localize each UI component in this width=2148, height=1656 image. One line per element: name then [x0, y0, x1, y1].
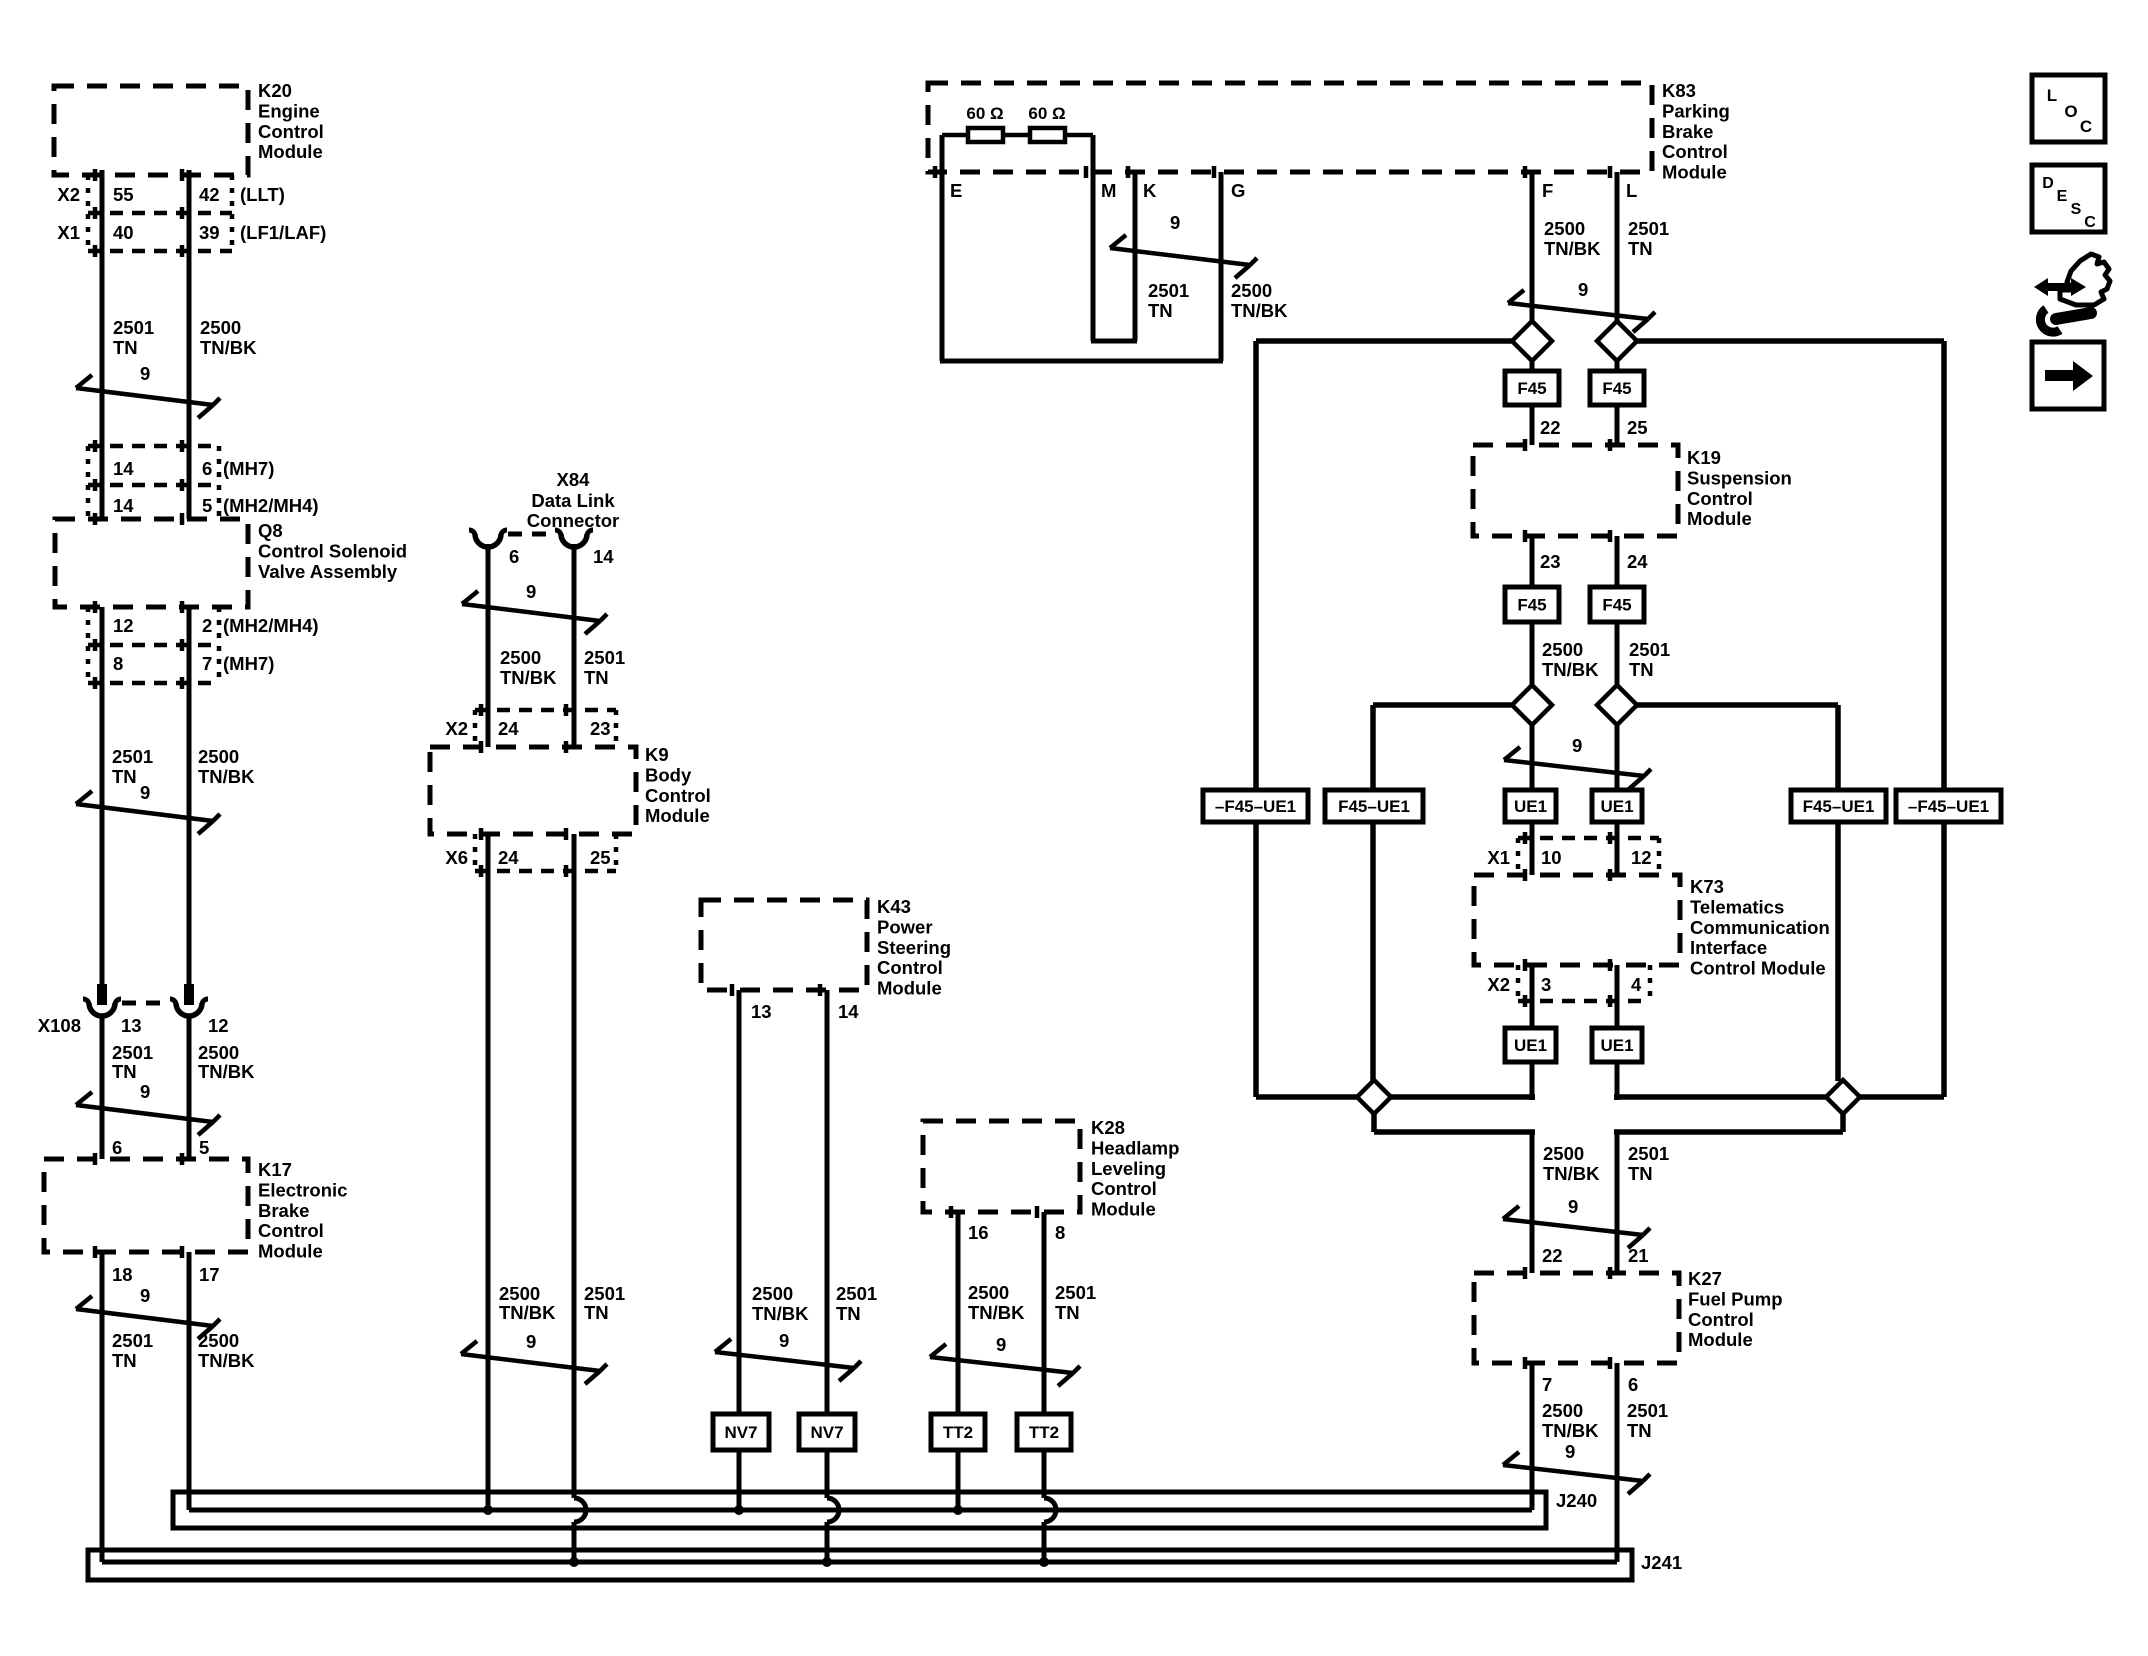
wire 2500 TN/BK from K28 pin 16 to TT2	[956, 1212, 961, 1414]
svg-text:S: S	[2071, 201, 2082, 218]
svg-text:6: 6	[1628, 1374, 1638, 1395]
splice diamond (2501 lower)	[1614, 1094, 1827, 1100]
svg-text:K83: K83	[1662, 80, 1696, 101]
svg-text:X6: X6	[445, 847, 468, 868]
svg-text:UE1: UE1	[1514, 797, 1547, 816]
svg-text:6: 6	[112, 1137, 122, 1158]
bus J241 conductor	[102, 1560, 1617, 1565]
svg-text:Module: Module	[1688, 1329, 1753, 1350]
svg-text:Module: Module	[1662, 162, 1727, 183]
svg-text:TN: TN	[1627, 1420, 1652, 1441]
connector row X2 pins 3 / 4 (K73)	[1518, 999, 1650, 1004]
wire 2501 TN from NV7 to J241 (hops J240)	[825, 1450, 830, 1498]
svg-text:2500: 2500	[1543, 1143, 1584, 1164]
module Q8 Control Solenoid Valve Assembly	[55, 519, 248, 607]
svg-text:TN: TN	[1628, 1163, 1653, 1184]
splice diamond (2501 upper)	[1597, 321, 1637, 361]
option box NV7	[799, 1414, 855, 1450]
wire F45 to K19 pin 25	[1615, 405, 1620, 445]
svg-text:K: K	[1143, 180, 1157, 201]
option box -F45-UE1 (far left)	[1203, 790, 1308, 822]
inline connector X108 pins 13 / 12	[97, 984, 107, 1005]
svg-text:C: C	[2084, 214, 2096, 231]
junction dot X84 wire	[569, 1557, 579, 1567]
svg-text:F45: F45	[1517, 596, 1546, 615]
svg-text:Module: Module	[1091, 1199, 1156, 1220]
icon next arrow	[2032, 342, 2104, 409]
connector row pins 12 / 2 (MH2/MH4)	[88, 643, 219, 648]
option box UE1 (lower left)	[1505, 1028, 1556, 1062]
svg-text:Control: Control	[1688, 1309, 1754, 1330]
svg-text:23: 23	[590, 718, 611, 739]
module K43 Power Steering Control Module	[701, 900, 867, 990]
wire 2501 TN from K20 pin 55 to Q8	[100, 170, 105, 519]
svg-text:Body: Body	[645, 764, 692, 785]
junction dot K43 wire	[822, 1557, 832, 1567]
svg-text:2500: 2500	[1542, 1400, 1583, 1421]
svg-text:24: 24	[498, 847, 519, 868]
svg-text:UE1: UE1	[1600, 797, 1633, 816]
svg-text:K43: K43	[877, 896, 911, 917]
pin terminal ticks	[93, 169, 98, 181]
fuse box F45 (left lower)	[1505, 587, 1559, 622]
svg-text:Control Solenoid: Control Solenoid	[258, 540, 407, 561]
connector row X2 pins 55 / 42 (LLT)	[88, 211, 232, 216]
svg-text:2501: 2501	[1055, 1282, 1096, 1303]
svg-text:K28: K28	[1091, 1117, 1125, 1138]
svg-text:14: 14	[113, 495, 134, 516]
svg-text:3: 3	[1541, 974, 1551, 995]
svg-text:Power: Power	[877, 916, 933, 937]
svg-text:–F45–UE1: –F45–UE1	[1908, 797, 1989, 816]
wire F45 to K19 pin 22	[1530, 405, 1535, 445]
svg-text:Module: Module	[645, 805, 710, 826]
svg-text:12: 12	[113, 615, 134, 636]
svg-text:12: 12	[1631, 847, 1652, 868]
svg-text:Leveling: Leveling	[1091, 1158, 1166, 1179]
svg-text:2500: 2500	[752, 1283, 793, 1304]
wire resistor links	[942, 133, 968, 138]
wire -F45-UE1 right vertical	[1941, 341, 1947, 1097]
svg-text:42: 42	[199, 184, 220, 205]
splice diamond (2500 middle)	[1512, 685, 1552, 725]
wire F45-UE1 left vertical	[1370, 705, 1376, 1081]
svg-text:2500: 2500	[200, 317, 241, 338]
svg-text:17: 17	[199, 1264, 220, 1285]
svg-text:F: F	[1542, 180, 1553, 201]
svg-text:16: 16	[968, 1222, 989, 1243]
connector row X2 pins 24 / 23 (K9)	[475, 708, 616, 713]
svg-text:F45–UE1: F45–UE1	[1803, 797, 1875, 816]
svg-text:Module: Module	[877, 978, 942, 999]
wire -F45-UE1 left vertical	[1253, 341, 1259, 1097]
svg-text:2500: 2500	[1231, 280, 1272, 301]
svg-text:X1: X1	[1487, 847, 1510, 868]
wire UE1 to K73 X1-12	[1615, 822, 1620, 875]
svg-text:Control: Control	[258, 1220, 324, 1241]
svg-text:Electronic: Electronic	[258, 1179, 347, 1200]
svg-text:24: 24	[1627, 551, 1648, 572]
svg-text:TN/BK: TN/BK	[198, 1350, 255, 1371]
icon hand with double arrow and wrench	[2060, 254, 2110, 305]
svg-text:13: 13	[751, 1001, 772, 1022]
svg-text:TN/BK: TN/BK	[1231, 300, 1288, 321]
svg-text:40: 40	[113, 222, 134, 243]
svg-text:25: 25	[1627, 417, 1648, 438]
wire K19 pin 23 to F45	[1530, 536, 1535, 587]
svg-text:9: 9	[526, 581, 536, 602]
svg-text:TN: TN	[1055, 1302, 1080, 1323]
svg-text:Data Link: Data Link	[531, 490, 615, 511]
svg-text:9: 9	[1578, 279, 1588, 300]
svg-text:F45–UE1: F45–UE1	[1338, 797, 1410, 816]
junction dot K28 wire	[953, 1505, 963, 1515]
fuse box F45 (right upper)	[1615, 361, 1620, 371]
icon LOC	[2032, 75, 2105, 142]
svg-text:25: 25	[590, 847, 611, 868]
svg-text:TN/BK: TN/BK	[198, 766, 255, 787]
svg-text:E: E	[950, 180, 962, 201]
connector row pins 14 / 6 (MH7)	[88, 444, 219, 449]
svg-text:2500: 2500	[968, 1282, 1009, 1303]
svg-text:4: 4	[1631, 974, 1642, 995]
svg-text:9: 9	[1572, 735, 1582, 756]
svg-text:Brake: Brake	[1662, 121, 1713, 142]
option box UE1 (right)	[1592, 790, 1642, 822]
wire 2501 TN to K27 pin 21	[1615, 1132, 1620, 1273]
svg-text:9: 9	[140, 1285, 150, 1306]
svg-text:9: 9	[140, 782, 150, 803]
svg-text:9: 9	[779, 1330, 789, 1351]
wire 2501 TN from X108 to K17 pin 6	[100, 1016, 105, 1159]
svg-text:X108: X108	[38, 1015, 81, 1036]
wire splice to UE1 (right)	[1615, 725, 1620, 790]
svg-text:TN/BK: TN/BK	[200, 337, 257, 358]
svg-text:9: 9	[996, 1334, 1006, 1355]
wire lower horizontal joins (left)	[1256, 1094, 1360, 1100]
svg-text:TN/BK: TN/BK	[968, 1302, 1025, 1323]
svg-text:2500: 2500	[1542, 639, 1583, 660]
wire pin M loop (M down, across, up to K)	[1091, 135, 1096, 341]
wire 2501 TN from Q8 to X108	[100, 607, 105, 986]
svg-text:J240: J240	[1556, 1490, 1597, 1511]
svg-text:X2: X2	[1487, 974, 1510, 995]
svg-text:Interface: Interface	[1690, 937, 1767, 958]
module K27 Fuel Pump Control Module	[1474, 1273, 1679, 1363]
svg-text:TN: TN	[113, 337, 138, 358]
bus J240 outline	[173, 1492, 1546, 1528]
svg-text:22: 22	[1540, 417, 1561, 438]
svg-text:2501: 2501	[112, 746, 153, 767]
svg-text:UE1: UE1	[1514, 1036, 1547, 1055]
option box TT2	[931, 1414, 985, 1450]
svg-text:2501: 2501	[584, 647, 625, 668]
svg-text:X2: X2	[445, 718, 468, 739]
svg-text:–F45–UE1: –F45–UE1	[1215, 797, 1296, 816]
wire F45 to splice	[1530, 622, 1535, 685]
svg-text:Fuel Pump: Fuel Pump	[1688, 1288, 1783, 1309]
svg-text:8: 8	[1055, 1222, 1065, 1243]
wire 2500 TN/BK from X108 to K17 pin 5	[187, 1016, 192, 1159]
svg-text:TT2: TT2	[1029, 1423, 1059, 1442]
svg-text:Control: Control	[877, 957, 943, 978]
svg-text:9: 9	[1568, 1196, 1578, 1217]
svg-text:5: 5	[199, 1137, 209, 1158]
wire 2500 TN/BK from K9 X6-24 to J240	[486, 710, 491, 747]
wire middle horizontal right to F45-UE1 branch	[1637, 702, 1838, 708]
svg-text:(MH7): (MH7)	[223, 653, 274, 674]
svg-text:J241: J241	[1641, 1552, 1682, 1573]
svg-text:TN: TN	[836, 1303, 861, 1324]
svg-text:8: 8	[113, 653, 123, 674]
wire F45-UE1 right vertical	[1835, 705, 1841, 1081]
fuse box F45 (right lower)	[1590, 587, 1644, 622]
wire K19 pin 24 to F45	[1615, 536, 1620, 587]
svg-text:60 Ω: 60 Ω	[1028, 104, 1065, 123]
svg-text:D: D	[2042, 175, 2054, 192]
svg-text:6: 6	[202, 458, 212, 479]
svg-text:F45: F45	[1517, 379, 1546, 398]
module K83 Parking Brake Control Module	[928, 83, 1652, 172]
svg-text:Suspension: Suspension	[1687, 467, 1792, 488]
svg-text:5: 5	[202, 495, 212, 516]
wire 2501 TN from K9 X6-25 to J241 (hops J240)	[572, 710, 577, 747]
svg-text:Telematics: Telematics	[1690, 896, 1784, 917]
svg-text:2500: 2500	[198, 746, 239, 767]
svg-text:2501: 2501	[1629, 639, 1670, 660]
svg-text:39: 39	[199, 222, 220, 243]
wire 2500 TN/BK from Q8 to X108	[187, 607, 192, 986]
svg-text:TN: TN	[584, 667, 609, 688]
svg-text:9: 9	[526, 1331, 536, 1352]
svg-text:2: 2	[202, 615, 212, 636]
svg-text:7: 7	[202, 653, 212, 674]
wire bus upper horizontal right to -F45-UE1 branch	[1637, 338, 1944, 344]
option box -F45-UE1 (far right)	[1896, 790, 2001, 822]
svg-text:Module: Module	[258, 1241, 323, 1262]
svg-text:2501: 2501	[1148, 280, 1189, 301]
svg-text:L: L	[1626, 180, 1637, 201]
splice diamond (2501 middle)	[1597, 685, 1637, 725]
svg-text:K73: K73	[1690, 876, 1724, 897]
svg-text:2501: 2501	[113, 317, 154, 338]
svg-text:K9: K9	[645, 744, 669, 765]
svg-text:E: E	[2057, 188, 2068, 205]
module K17 Electronic Brake Control Module	[44, 1159, 248, 1252]
svg-text:14: 14	[113, 458, 134, 479]
svg-text:X84: X84	[557, 469, 591, 490]
wire UE1 to splice (right)	[1615, 1062, 1620, 1100]
svg-text:2500: 2500	[500, 647, 541, 668]
svg-text:9: 9	[140, 363, 150, 384]
module K20 Engine Control Module	[54, 86, 248, 175]
svg-text:TN/BK: TN/BK	[499, 1302, 556, 1323]
svg-text:2500: 2500	[499, 1283, 540, 1304]
svg-text:2501: 2501	[1628, 218, 1669, 239]
junction dot K43 wire	[734, 1505, 744, 1515]
connector row X6 pins 24 / 25 (K9)	[475, 869, 616, 874]
wire bus upper horizontal left to -F45-UE1 branch	[1256, 338, 1512, 344]
svg-text:55: 55	[113, 184, 134, 205]
wire 2500 TN/BK from NV7 to J240	[737, 1450, 742, 1510]
svg-text:F45: F45	[1602, 596, 1631, 615]
bus J241 outline	[88, 1550, 1632, 1580]
wire 2501 TN K27 pin 6 to J241	[1615, 1363, 1620, 1562]
icon DESC	[2032, 165, 2105, 232]
wire K73 X2-4 to UE1	[1615, 965, 1620, 1028]
module K73 Telematics Communication Interface Control Module	[1474, 875, 1680, 965]
svg-text:2501: 2501	[112, 1330, 153, 1351]
connector row pins 8 / 7 (MH7)	[88, 681, 219, 686]
wire 2501 TN from K83 pin L	[1615, 172, 1620, 321]
svg-text:K27: K27	[1688, 1268, 1722, 1289]
svg-text:TN/BK: TN/BK	[1544, 238, 1601, 259]
svg-text:Control: Control	[1687, 488, 1753, 509]
svg-text:TN: TN	[1148, 300, 1173, 321]
svg-text:Control Module: Control Module	[1690, 958, 1826, 979]
svg-text:TT2: TT2	[943, 1423, 973, 1442]
wire 2500 TN/BK K27 pin 7 to J240	[1530, 1363, 1535, 1510]
svg-text:Control: Control	[645, 785, 711, 806]
wire 2501 TN from TT2 to J241 (hops J240)	[1042, 1450, 1047, 1498]
svg-text:9: 9	[1565, 1441, 1575, 1462]
wire UE1 to splice (left)	[1530, 1062, 1535, 1100]
wire 2501 TN from K28 pin 8 to TT2	[1042, 1212, 1047, 1414]
svg-text:2501: 2501	[1627, 1400, 1668, 1421]
svg-text:K17: K17	[258, 1159, 292, 1180]
wire 2501 TN from K17 pin 18 to J241	[100, 1252, 105, 1562]
svg-text:2500: 2500	[1544, 218, 1585, 239]
wire 2501 TN from K43 pin 14 to NV7	[825, 990, 830, 1414]
svg-text:(LLT): (LLT)	[240, 184, 285, 205]
svg-text:Valve Assembly: Valve Assembly	[258, 561, 398, 582]
wire 2500 TN/BK from X84 pin 6 to K9	[486, 544, 491, 710]
svg-text:2501: 2501	[1628, 1143, 1669, 1164]
svg-text:(LF1/LAF): (LF1/LAF)	[240, 222, 326, 243]
svg-text:Communication: Communication	[1690, 917, 1830, 938]
svg-text:Control: Control	[258, 121, 324, 142]
svg-text:TN/BK: TN/BK	[752, 1303, 809, 1324]
svg-text:2501: 2501	[836, 1283, 877, 1304]
wire 2501 TN from X84 pin 14 to K9	[572, 544, 577, 710]
svg-text:6: 6	[509, 546, 519, 567]
svg-text:10: 10	[1541, 847, 1562, 868]
svg-text:TN/BK: TN/BK	[500, 667, 557, 688]
svg-text:7: 7	[1542, 1374, 1552, 1395]
svg-text:Module: Module	[258, 141, 323, 162]
connector row X1 pins 10 / 12 (K73)	[1518, 836, 1659, 841]
svg-text:Connector: Connector	[527, 510, 620, 531]
svg-text:TN: TN	[1629, 659, 1654, 680]
wire 2500 TN/BK from K20 pin 42 to Q8	[187, 170, 192, 519]
svg-text:TN/BK: TN/BK	[1542, 659, 1599, 680]
svg-text:X1: X1	[57, 222, 80, 243]
svg-text:Brake: Brake	[258, 1200, 309, 1221]
wire UE1 to K73 X1-10	[1530, 822, 1535, 875]
wire 2500 TN/BK from K43 pin 13 to NV7	[737, 990, 742, 1414]
svg-text:22: 22	[1542, 1245, 1563, 1266]
svg-text:9: 9	[140, 1081, 150, 1102]
svg-text:Headlamp: Headlamp	[1091, 1137, 1179, 1158]
svg-text:14: 14	[838, 1001, 859, 1022]
svg-text:K20: K20	[258, 80, 292, 101]
wire 2500 TN/BK from K83 pin F	[1530, 172, 1535, 321]
svg-text:TN/BK: TN/BK	[198, 1061, 255, 1082]
wire K73 X2-3 to UE1	[1530, 965, 1535, 1028]
svg-text:C: C	[2080, 117, 2092, 136]
wire 2500 TN/BK from TT2 to J240	[956, 1450, 961, 1510]
svg-text:TN: TN	[584, 1302, 609, 1323]
bus J240 conductor	[189, 1508, 1532, 1513]
svg-text:UE1: UE1	[1600, 1036, 1633, 1055]
option box F45-UE1 (right)	[1791, 790, 1886, 822]
svg-text:2500: 2500	[198, 1042, 239, 1063]
svg-text:TN/BK: TN/BK	[1542, 1420, 1599, 1441]
fuse box F45 (left upper)	[1530, 361, 1535, 371]
junction dot X84 wire	[483, 1505, 493, 1515]
svg-text:13: 13	[121, 1015, 142, 1036]
svg-text:Module: Module	[1687, 508, 1752, 529]
wire pin E loop (E down, across, up to G)	[940, 135, 945, 361]
module K19 Suspension Control Module	[1473, 445, 1678, 536]
svg-text:TN: TN	[112, 766, 137, 787]
svg-text:M: M	[1101, 180, 1116, 201]
wire 2500 TN/BK to K27 pin 22	[1530, 1132, 1535, 1273]
option box UE1 (left)	[1505, 790, 1556, 822]
svg-text:2500: 2500	[198, 1330, 239, 1351]
svg-text:9: 9	[1170, 212, 1180, 233]
svg-text:Q8: Q8	[258, 520, 283, 541]
option box UE1 (lower right)	[1592, 1028, 1642, 1062]
svg-text:F45: F45	[1602, 379, 1631, 398]
module K9 Body Control Module	[430, 747, 636, 834]
svg-text:12: 12	[208, 1015, 229, 1036]
svg-text:2501: 2501	[584, 1283, 625, 1304]
svg-text:TN: TN	[112, 1061, 137, 1082]
svg-text:TN: TN	[112, 1350, 137, 1371]
option box TT2	[1017, 1414, 1071, 1450]
svg-text:K19: K19	[1687, 447, 1721, 468]
wire middle horizontal left to F45-UE1 branch	[1373, 702, 1512, 708]
connector row X1 pins 40 / 39 (LF1/LAF)	[88, 249, 232, 254]
wire splice down to 2501 branch	[1840, 1112, 1846, 1132]
svg-text:TN/BK: TN/BK	[1543, 1163, 1600, 1184]
junction dot K28 wire	[1039, 1557, 1049, 1567]
svg-text:18: 18	[112, 1264, 133, 1285]
svg-text:O: O	[2064, 102, 2077, 121]
svg-text:60 Ω: 60 Ω	[966, 104, 1003, 123]
svg-text:2501: 2501	[112, 1042, 153, 1063]
svg-text:L: L	[2047, 86, 2057, 105]
svg-text:TN: TN	[1628, 238, 1653, 259]
svg-text:14: 14	[593, 546, 614, 567]
svg-text:NV7: NV7	[810, 1423, 843, 1442]
svg-text:Engine: Engine	[258, 100, 320, 121]
wire splice down to 2500 branch	[1371, 1112, 1377, 1132]
svg-text:24: 24	[498, 718, 519, 739]
option box F45-UE1 (left)	[1325, 790, 1423, 822]
svg-text:Control: Control	[1091, 1178, 1157, 1199]
option box NV7	[713, 1414, 769, 1450]
svg-text:NV7: NV7	[724, 1423, 757, 1442]
svg-text:(MH7): (MH7)	[223, 458, 274, 479]
svg-text:21: 21	[1628, 1245, 1649, 1266]
module K28 Headlamp Leveling Control Module	[923, 1121, 1080, 1212]
svg-text:X2: X2	[57, 184, 80, 205]
wire splice to UE1 (left)	[1530, 725, 1535, 790]
svg-text:G: G	[1231, 180, 1245, 201]
svg-text:23: 23	[1540, 551, 1561, 572]
